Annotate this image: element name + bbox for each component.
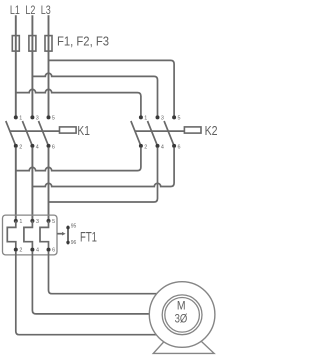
- K1 linkage wire: [10, 130, 59, 132]
- wire FT1 pin 6 to motor top: [49, 252, 166, 294]
- contactor K1 pole 1-2: [6, 115, 22, 150]
- wire L1 column K1 to FT1: [15, 148, 17, 219]
- svg-text:FT1: FT1: [80, 228, 97, 244]
- fuse F1: [12, 36, 19, 52]
- contactor K1 pole 3-4: [22, 115, 38, 150]
- svg-text:6: 6: [52, 144, 55, 150]
- svg-text:L2: L2: [25, 3, 35, 17]
- wire L3 column K1 to FT1: [48, 148, 50, 219]
- FT1 heater 1-2: [7, 219, 22, 254]
- svg-text:M: M: [177, 301, 186, 313]
- contactor K2 pole 3-4: [148, 115, 164, 150]
- wire FT1 pin 4 to motor middle: [32, 252, 155, 314]
- svg-text:95: 95: [71, 224, 77, 230]
- wire K2 pin 6 to L2 column (hops over pin 4 wire and L3): [32, 148, 174, 187]
- fuse F2: [29, 36, 36, 52]
- motor M1 body: [149, 282, 215, 348]
- K2 linkage wire: [135, 130, 184, 132]
- svg-text:4: 4: [36, 144, 39, 150]
- wire L3 feed: [48, 15, 50, 116]
- wire K2 pin 2 to L1 column (hops over L2, L3): [16, 148, 141, 171]
- svg-text:96: 96: [71, 240, 77, 246]
- FT1 heater 3-4: [24, 219, 39, 254]
- svg-text:4: 4: [161, 144, 164, 150]
- svg-text:3: 3: [161, 116, 164, 122]
- motor inner ring outer: [162, 295, 202, 335]
- svg-text:5: 5: [52, 116, 55, 122]
- svg-text:3: 3: [36, 219, 39, 225]
- wire K2 pin 4 to L3 column: [49, 148, 158, 202]
- svg-text:1: 1: [19, 219, 22, 225]
- svg-text:5: 5: [52, 219, 55, 225]
- coil K1: [60, 127, 77, 133]
- fuse F3: [45, 36, 52, 52]
- svg-text:L3: L3: [41, 3, 51, 17]
- svg-text:K1: K1: [77, 123, 90, 138]
- FT1 heater 5-6: [40, 219, 55, 254]
- wire L1 feed: [15, 15, 17, 116]
- svg-text:2: 2: [144, 144, 147, 150]
- svg-text:L1: L1: [10, 3, 20, 17]
- contactor K1 pole 5-6: [39, 115, 55, 150]
- svg-text:1: 1: [19, 116, 22, 122]
- FT1 auxiliary contact 95-96: [66, 224, 76, 246]
- wire L3 branch to K2 pin 5: [49, 60, 175, 116]
- FT1 trip arrow: [57, 232, 66, 236]
- overload relay FT1 box: [3, 215, 58, 255]
- svg-text:2: 2: [19, 144, 22, 150]
- wire L2 feed: [31, 15, 33, 116]
- svg-text:6: 6: [178, 144, 181, 150]
- motor base: [153, 337, 214, 353]
- wire FT1 pin 2 to motor bottom: [16, 252, 165, 335]
- contactor K2 pole 5-6: [164, 115, 180, 150]
- svg-text:1: 1: [144, 116, 147, 122]
- svg-text:5: 5: [178, 116, 181, 122]
- wire L2 column K1 to FT1: [31, 148, 33, 219]
- svg-text:6: 6: [52, 248, 55, 254]
- contactor K2 pole 1-2: [131, 115, 147, 150]
- svg-text:4: 4: [36, 248, 39, 254]
- svg-text:3Ø: 3Ø: [175, 313, 188, 325]
- svg-text:K2: K2: [205, 123, 218, 138]
- svg-text:F1, F2, F3: F1, F2, F3: [57, 34, 109, 49]
- svg-text:2: 2: [19, 248, 22, 254]
- svg-text:3: 3: [36, 116, 39, 122]
- coil K2: [184, 127, 201, 133]
- motor inner ring inner: [165, 298, 200, 333]
- wire L2 branch to K2 pin 3 (hop over L3): [32, 73, 157, 116]
- wire L1 branch to K2 pin 1 (hops over L2, L3): [16, 89, 141, 116]
